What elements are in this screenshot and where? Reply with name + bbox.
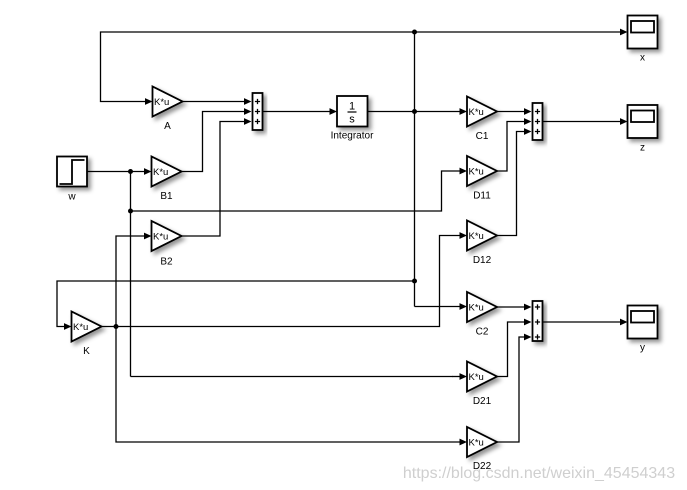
gain D22 [467, 427, 497, 457]
wire to C2 [415, 306, 461, 308]
svg-text:1: 1 [349, 101, 355, 113]
gain B2 [152, 221, 182, 251]
integrator [337, 96, 368, 127]
wire B2 to Sum1 [182, 122, 245, 237]
svg-text:K*u: K*u [153, 232, 168, 243]
wire K to D22 [116, 327, 460, 443]
junction w-B1 [128, 169, 133, 174]
wire w to D11 [131, 171, 461, 211]
gain B1 [152, 157, 182, 187]
scope y [628, 306, 658, 339]
wire D22 to Sum3 [497, 337, 524, 442]
svg-text:C1: C1 [476, 131, 489, 142]
svg-text:K*u: K*u [153, 167, 168, 178]
svg-text:z: z [640, 143, 645, 154]
junction integrator out [412, 109, 417, 114]
svg-text:K*u: K*u [469, 303, 484, 314]
wire A to Sum1 [183, 101, 245, 103]
wire K to B2 [116, 236, 144, 327]
gain A [153, 87, 183, 117]
sum Sum2 [533, 103, 543, 140]
svg-text:D21: D21 [473, 396, 492, 407]
svg-text:x: x [640, 53, 645, 64]
wire D11 to Sum2 [497, 122, 524, 172]
wire B1 to Sum1 [182, 112, 245, 172]
wire Sum1 to Integrator [263, 111, 331, 113]
svg-text:K: K [83, 346, 90, 357]
gain C2 [467, 292, 497, 322]
sum Sum3 [533, 301, 543, 341]
svg-text:y: y [640, 343, 645, 354]
svg-text:K*u: K*u [469, 167, 484, 178]
wire Sum3 to scope y [543, 321, 621, 323]
wire C2 to Sum3 [497, 306, 525, 308]
svg-text:K*u: K*u [154, 97, 169, 108]
svg-text:K*u: K*u [73, 322, 88, 333]
wire feedback riser [414, 32, 416, 307]
wire Sum2 to scope z [543, 121, 621, 123]
gain D12 [467, 221, 497, 251]
svg-text:K*u: K*u [469, 231, 484, 242]
svg-text:B2: B2 [160, 257, 173, 268]
wire D12 to Sum2 [497, 132, 524, 236]
svg-text:Integrator: Integrator [331, 131, 374, 142]
svg-text:A: A [164, 121, 171, 132]
svg-text:K*u: K*u [469, 438, 484, 449]
wire feedback to K [57, 281, 415, 327]
wire w to B1 [87, 171, 145, 173]
svg-text:D12: D12 [473, 255, 492, 266]
wire w branch down [130, 172, 132, 377]
svg-text:K*u: K*u [469, 107, 484, 118]
svg-text:C2: C2 [476, 327, 489, 338]
svg-text:D22: D22 [473, 461, 492, 472]
svg-text:B1: B1 [160, 191, 173, 202]
svg-text:s: s [349, 114, 355, 126]
scope z [628, 105, 658, 138]
gain D11 [467, 156, 497, 186]
svg-text:https://blog.csdn.net/weixin_4: https://blog.csdn.net/weixin_45454343 [403, 465, 675, 482]
sum Sum1 [253, 93, 263, 130]
junction K out [114, 324, 119, 329]
wire D21 to Sum3 [497, 322, 524, 377]
gain K [72, 312, 102, 342]
svg-text:D11: D11 [473, 191, 491, 202]
wire Integrator to C1 [368, 111, 461, 113]
step source w [57, 157, 87, 187]
scope x [628, 16, 658, 49]
gain C1 [467, 97, 497, 127]
wire top to scope x [415, 31, 621, 33]
wire w to D21 [131, 376, 453, 378]
junction top [412, 30, 417, 35]
junction K feedback [412, 279, 417, 284]
junction w-D11 [128, 209, 133, 214]
wire K to D12 [102, 236, 461, 327]
gain D21 [467, 362, 497, 392]
svg-text:w: w [67, 192, 76, 203]
wire top feedback to A [101, 32, 415, 102]
wire C1 to Sum2 [497, 111, 525, 113]
svg-text:K*u: K*u [469, 372, 484, 383]
